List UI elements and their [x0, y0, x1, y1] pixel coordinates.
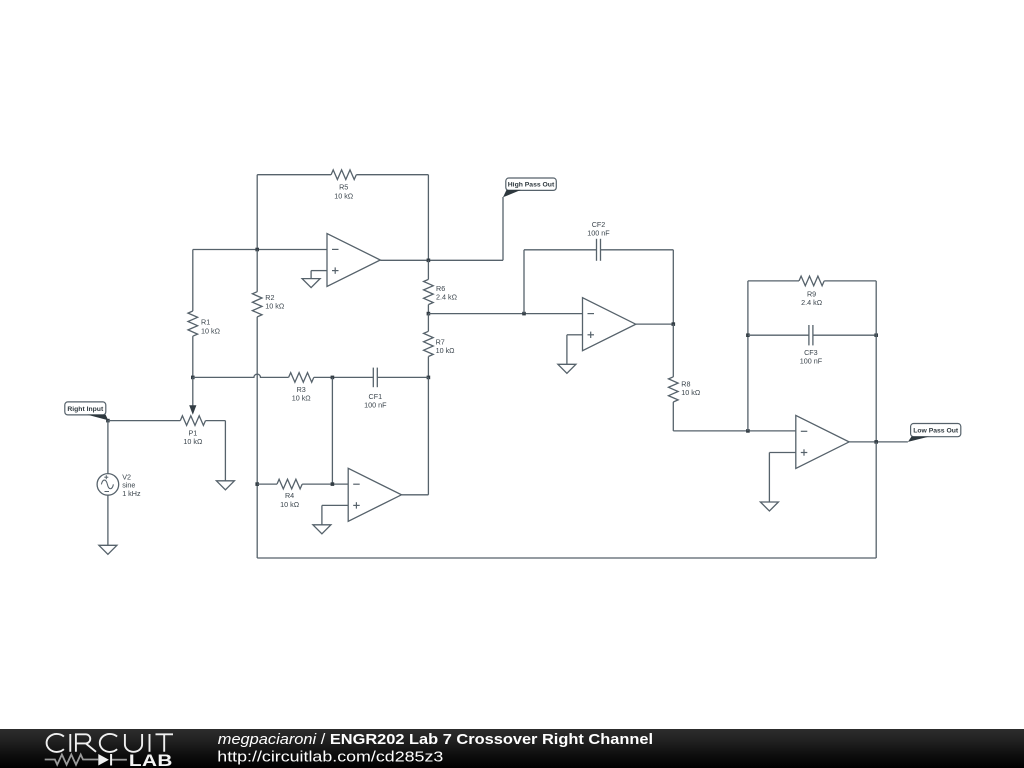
ground (U3 non-inverting input) — [558, 364, 576, 373]
wire: U3 minus input net from R6/R7 node — [428, 313, 582, 315]
node: R6/R7/U3 minus wire junction — [427, 312, 431, 316]
wire: R8 bottom to U4 minus input — [673, 430, 796, 432]
node: U4 output junction — [874, 440, 878, 444]
wire: U1 output to High Pass node — [380, 259, 503, 261]
op-amp U2 — [348, 468, 401, 521]
node: R2 / R4 junction — [255, 482, 259, 486]
resistor R3 — [289, 373, 314, 383]
footer title line — [218, 732, 653, 748]
node: R4 / CF1-branch junction — [331, 482, 335, 486]
CircuitLab logo: CIRCUIT wordmark (hairline letters) — [47, 734, 173, 752]
capacitor CF2 — [524, 249, 597, 251]
wire: U1 + input stub to ground — [311, 270, 327, 272]
ground (U2 non-inverting input) — [313, 525, 331, 534]
wire: R5 right leg down to U1 output — [427, 175, 429, 261]
flag: High Pass Out — [506, 178, 557, 190]
node: R3/CF1/U2 minus branch junction — [331, 376, 335, 380]
wire: P1 wiper from R1 bottom node — [192, 377, 194, 409]
wire: R9/CF3 left leg — [747, 281, 749, 431]
CircuitLab logo: LAB wordmark — [129, 751, 173, 768]
node: R7/CF1/U2-output junction — [427, 376, 431, 380]
node: CF3 right junction — [874, 333, 878, 337]
P1 wiper arrowhead — [189, 405, 196, 415]
op-amp U4 — [796, 415, 849, 468]
capacitor CF3 — [748, 334, 809, 336]
node: CF2 branch junction — [522, 312, 526, 316]
capacitor CF1 — [372, 368, 374, 388]
svg-text:LAB: LAB — [129, 751, 173, 768]
resistor R2 — [256, 250, 258, 292]
wire: High Pass Out flag leg — [502, 197, 504, 260]
CircuitLab logo: resistor zigzag — [45, 755, 99, 765]
node: Right Input / V2 / P1 junction — [106, 419, 110, 423]
wire: branch down from R3/CF1 node to U2 minus wire — [331, 377, 333, 484]
footer url line — [217, 749, 443, 765]
node: junction R5/R2/U1 minus — [255, 248, 259, 252]
resistor R6 — [427, 260, 429, 279]
flag: Low Pass Out — [911, 424, 961, 437]
ground (V2) — [99, 545, 117, 554]
wire: U4 + input stub to ground — [769, 452, 795, 454]
wire: bottom rail up to U4 output — [875, 442, 877, 558]
wire: op-amp U1 inverting input net (R1 top / R2 top / R5 left) — [193, 249, 327, 251]
wire: U2 + input stub to ground — [322, 504, 348, 506]
flag: Right Input — [65, 402, 106, 415]
wire: R1 bottom to R3 (with hop over R2 net) — [193, 374, 289, 377]
wire: input node to P1 left terminal — [108, 420, 180, 422]
svg-text:megpaciaroni / ENGR202 Lab 7 C: megpaciaroni / ENGR202 Lab 7 Crossover R… — [218, 732, 653, 748]
resistor R1 — [192, 250, 194, 312]
svg-text:http://circuitlab.com/cd285z3: http://circuitlab.com/cd285z3 — [217, 749, 443, 765]
wire: R5 feedback left leg — [256, 175, 258, 250]
potentiometer P1 — [180, 416, 205, 426]
op-amp U3 — [583, 298, 636, 351]
wire: down from CF1 node to U2 output — [427, 377, 429, 494]
op-amp U1 — [327, 234, 380, 287]
resistor R7 — [427, 314, 429, 332]
wire: R9/CF3 right leg down to U4 output — [875, 281, 877, 442]
wire: CF2 right leg down to U3 output — [672, 250, 674, 324]
wire: CF2 left leg — [523, 250, 525, 314]
wire: U4 output to Low Pass flag — [849, 441, 908, 443]
node: U3 output junction — [672, 322, 676, 326]
resistor R4 — [257, 483, 277, 485]
ground (U4 non-inverting input) — [760, 502, 778, 511]
wire: U2 output up to CF1 node — [402, 494, 429, 496]
resistor R9 — [748, 280, 799, 282]
node: R1 bottom / R3 left / P1 wiper junction — [191, 376, 195, 380]
wire: U3 output — [636, 323, 674, 325]
node: CF3 left junction — [746, 333, 750, 337]
CircuitLab logo: diode symbol — [98, 754, 109, 766]
voltage source V2 — [97, 474, 119, 496]
resistor R5 — [257, 174, 331, 176]
wire: P1 right terminal down to ground — [224, 421, 226, 481]
ground (P1) — [216, 481, 234, 490]
ground (U1 non-inverting input) — [302, 279, 320, 288]
node: U1 output junction — [427, 259, 431, 263]
wire: bottom feedback rail — [257, 557, 876, 559]
wire: input node down to V2 — [107, 421, 109, 474]
wire: U3 + input stub to ground — [567, 334, 583, 336]
resistor R8 — [672, 324, 674, 377]
wire: V2 to ground — [107, 495, 109, 545]
node: R9/CF3 left branch junction — [746, 429, 750, 433]
